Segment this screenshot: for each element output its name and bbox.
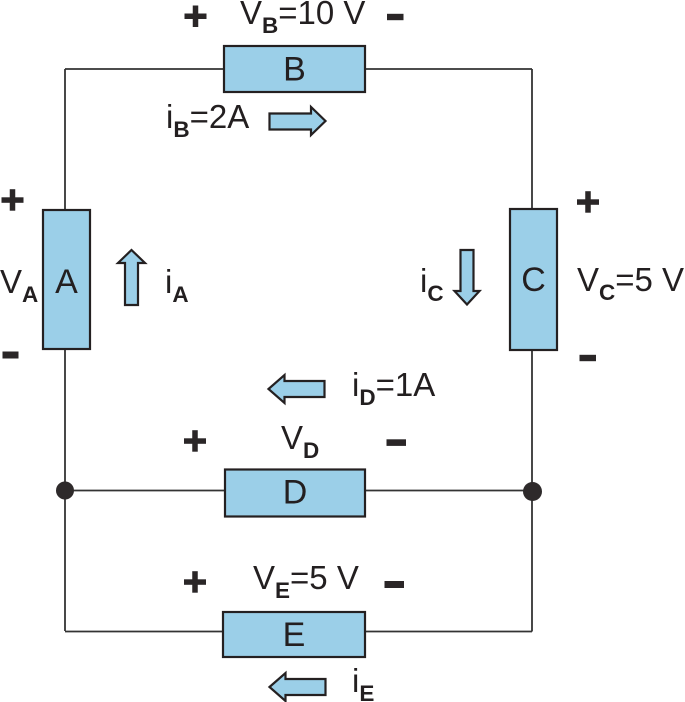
svg-text:C: C	[521, 261, 546, 299]
svg-text:D: D	[283, 474, 308, 512]
wire right vertical	[531, 69, 533, 632]
minus sign (E)	[385, 581, 405, 588]
element D box	[225, 470, 365, 517]
plus sign right (C)	[577, 191, 599, 213]
svg-text:A: A	[55, 263, 78, 301]
minus sign right (C)	[580, 355, 597, 361]
element B box	[224, 46, 365, 92]
arrow iA (up)	[118, 250, 145, 305]
plus sign (D)	[184, 430, 206, 452]
node left junction dot	[56, 482, 74, 500]
element E box	[223, 612, 365, 657]
arrow iB (right)	[270, 107, 326, 135]
element A box	[43, 210, 90, 349]
minus sign left (A)	[3, 352, 19, 359]
wire top	[65, 68, 532, 70]
plus sign (E)	[184, 571, 206, 593]
minus sign top (B)	[387, 14, 404, 20]
minus sign (D)	[387, 439, 407, 446]
plus sign top (B)	[185, 6, 207, 28]
arrow iD (left)	[269, 375, 325, 403]
wire middle (D row)	[65, 490, 532, 492]
wire left vertical	[64, 69, 66, 631]
arrow iC (down)	[455, 250, 480, 305]
node right junction dot	[523, 482, 542, 501]
element C box	[510, 209, 557, 350]
plus sign left (A)	[2, 189, 24, 211]
wire bottom	[65, 631, 532, 633]
svg-text:B: B	[283, 51, 306, 89]
arrow iE (left)	[270, 673, 326, 701]
svg-text:E: E	[283, 616, 306, 654]
